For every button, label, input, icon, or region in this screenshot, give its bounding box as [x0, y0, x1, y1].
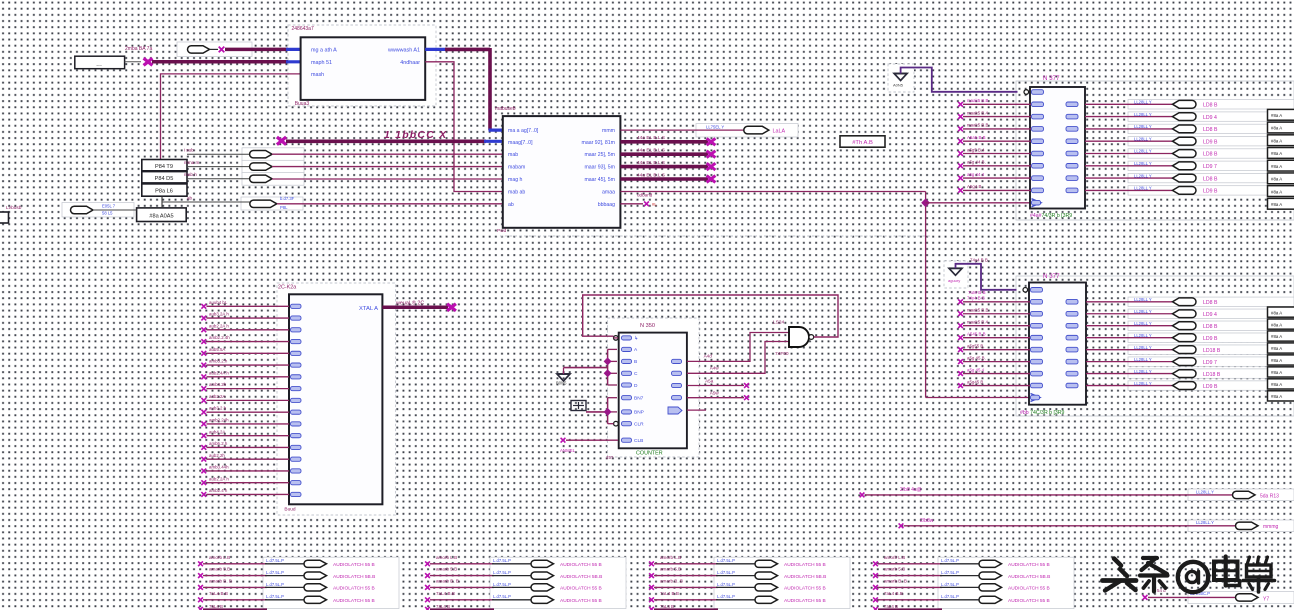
svg-text:58 L5: 58 L5: [102, 211, 113, 216]
svg-text:#Th A.B: #Th A.B: [852, 140, 873, 146]
svg-text:#8a A: #8a A: [1271, 164, 1282, 169]
svg-text:ab: ab: [187, 196, 193, 201]
svg-text:44a EL B.L S: 44a EL B.L S: [637, 172, 665, 178]
svg-text:7aL4 B.B: 7aL4 B.B: [209, 591, 228, 596]
svg-text:#8a A: #8a A: [1271, 113, 1282, 118]
svg-text:maag[7..0]: maag[7..0]: [508, 140, 533, 146]
svg-text:L.d7.5L.P: L.d7.5L.P: [717, 594, 735, 599]
svg-text:aguury: aguury: [948, 278, 960, 283]
svg-text:L.d7.5L.P: L.d7.5L.P: [717, 570, 735, 575]
svg-text:amaa: amaa: [602, 190, 615, 196]
svg-text:P84 D5: P84 D5: [155, 176, 174, 182]
svg-text:LL28LL Y: LL28LL Y: [1134, 345, 1152, 350]
svg-text:LD8 B: LD8 B: [1203, 152, 1218, 158]
svg-text:#8a A0A5: #8a A0A5: [149, 213, 173, 219]
svg-text:AUDIOLATCH 55 B: AUDIOLATCH 55 B: [333, 598, 375, 604]
svg-text:bbbaag: bbbaag: [598, 202, 615, 208]
svg-text:#L: #L: [652, 202, 657, 207]
svg-text:4ndhaar: 4ndhaar: [400, 60, 420, 66]
svg-text:maar 25], 5m: maar 25], 5m: [584, 152, 615, 158]
svg-text:AUDIOLATCH 55 B: AUDIOLATCH 55 B: [784, 598, 826, 604]
svg-text:LD9 4: LD9 4: [1203, 312, 1217, 318]
svg-text:ma a ag[7..0]: ma a ag[7..0]: [508, 128, 539, 134]
svg-text:LL28LL Y: LL28LL Y: [1134, 161, 1152, 166]
svg-text:aub2.4A h: aub2.4A h: [209, 370, 229, 375]
svg-text:L.d7.5L.P: L.d7.5L.P: [266, 594, 284, 599]
svg-text:LD8 B: LD8 B: [1203, 127, 1218, 133]
svg-text:5da R13: 5da R13: [1260, 493, 1279, 499]
svg-text:LL28LL Y: LL28LL Y: [1134, 124, 1152, 129]
svg-text:#8a A: #8a A: [1271, 370, 1282, 375]
svg-text:mabam: mabam: [508, 165, 525, 171]
svg-text:LL28LL Y: LL28LL Y: [1134, 297, 1152, 302]
svg-text:L.d7.5L.P: L.d7.5L.P: [266, 558, 284, 563]
svg-text:mmmg: mmmg: [1263, 524, 1278, 530]
svg-text:LD9 7: LD9 7: [1203, 164, 1217, 170]
svg-text:2mba BA 7a: 2mba BA 7a: [125, 46, 152, 52]
svg-text:aub3.2 h: aub3.2 h: [209, 406, 227, 411]
svg-text:LL28LL Y: LL28LL Y: [1134, 100, 1152, 105]
svg-text:LL28LL Y: LL28LL Y: [1134, 186, 1152, 191]
svg-text:a5g5 B.4: a5g5 B.4: [967, 147, 985, 152]
svg-text:mma m: mma m: [184, 160, 199, 165]
svg-text:#8a A: #8a A: [1271, 177, 1282, 182]
svg-text:amarb B. B: amarb B. B: [209, 578, 232, 583]
svg-text:amorb L.B: amorb L.B: [209, 555, 230, 560]
svg-text:#8a A: #8a A: [1271, 346, 1282, 351]
svg-text:aub2.2A h: aub2.2A h: [209, 476, 229, 481]
svg-text:Lvbusb: Lvbusb: [6, 205, 22, 211]
svg-text:LaLA: LaLA: [773, 129, 786, 135]
svg-text:maar 93], 5m: maar 93], 5m: [584, 165, 615, 171]
svg-text:74y4 B B: 74y4 B B: [967, 296, 985, 301]
svg-text:amb3.2.h: amb3.2.h: [209, 359, 228, 364]
svg-text:BNP: BNP: [634, 410, 644, 416]
svg-text:AUDIOLATCH 55 B: AUDIOLATCH 55 B: [560, 598, 602, 604]
svg-text:amarb 5.B: amarb 5.B: [436, 567, 457, 572]
svg-text:7aL4 B.B: 7aL4 B.B: [884, 591, 903, 596]
svg-text:mag h: mag h: [508, 177, 523, 183]
svg-text:amb4.2h: amb4.2h: [209, 382, 227, 387]
svg-text:L.d7.5L.P: L.d7.5L.P: [717, 558, 735, 563]
svg-text:CLR: CLR: [634, 422, 644, 428]
svg-text:A4d: A4d: [704, 354, 713, 359]
svg-text:AUDIOLATCH 5B.B: AUDIOLATCH 5B.B: [333, 574, 375, 580]
svg-text:AUDIOLATCH 55 B: AUDIOLATCH 55 B: [333, 562, 375, 568]
svg-text:LD8 B: LD8 B: [1203, 176, 1218, 182]
svg-text:weuaL® 2C: weuaL® 2C: [395, 300, 424, 307]
svg-text:AUDIOLATCH 55 B: AUDIOLATCH 55 B: [1008, 562, 1050, 568]
svg-text:B: B: [634, 359, 637, 365]
svg-text:7aL4 B.B: 7aL4 B.B: [660, 591, 679, 596]
svg-text:a5g 44 4: a5g 44 4: [967, 172, 985, 177]
svg-text:amb2.24h: amb2.24h: [209, 418, 229, 423]
svg-text:amarb 5.B: amarb 5.B: [209, 567, 230, 572]
svg-text:248643a7: 248643a7: [292, 26, 314, 32]
svg-text:ANMEL: ANMEL: [560, 448, 576, 453]
svg-text:E05L 7: E05L 7: [102, 204, 116, 209]
svg-text:AUDIOLATCH 55 B: AUDIOLATCH 55 B: [333, 586, 375, 592]
svg-text:L.d7.5L.P: L.d7.5L.P: [493, 570, 511, 575]
svg-text:LL28LL Y: LL28LL Y: [1134, 381, 1152, 386]
svg-text:maar 45], 5m: maar 45], 5m: [584, 177, 615, 183]
svg-text:...: ...: [96, 61, 102, 68]
svg-text:AUDIOLATCH 5B.B: AUDIOLATCH 5B.B: [1008, 574, 1050, 580]
svg-text:a5g 45 B.: a5g 45 B.: [967, 355, 986, 360]
svg-text:#bb 74C/3R b [3R9: #bb 74C/3R b [3R9: [1020, 410, 1065, 416]
svg-text:AUDIOLATCH 55 B: AUDIOLATCH 55 B: [784, 562, 826, 568]
svg-text:amarb 5.B: amarb 5.B: [660, 567, 681, 572]
svg-text:44a EL B.L S: 44a EL B.L S: [637, 160, 665, 166]
svg-text:mab: mab: [508, 152, 518, 158]
svg-text:LL28LL Y: LL28LL Y: [1134, 309, 1152, 314]
svg-text:N 377: N 377: [1043, 75, 1060, 82]
svg-text:N 350: N 350: [640, 323, 655, 329]
svg-text:wwwwash A1: wwwwash A1: [387, 48, 420, 54]
svg-text:AUDIOLATCH 55 B: AUDIOLATCH 55 B: [560, 586, 602, 592]
svg-text:aub3.2A h: aub3.2A h: [209, 312, 229, 317]
svg-text:7aL4 B: 7aL4 B: [660, 604, 674, 609]
svg-text:amarb 5.B: amarb 5.B: [884, 567, 905, 572]
svg-text:CLB: CLB: [634, 438, 643, 444]
svg-text:LD18 B: LD18 B: [1203, 372, 1221, 378]
svg-text:L.d7.5L.P: L.d7.5L.P: [493, 582, 511, 587]
svg-text:↳: ↳: [634, 336, 638, 342]
svg-text:aub4.2A: aub4.2A: [209, 429, 225, 434]
svg-text:aub5.5A: aub5.5A: [209, 347, 225, 352]
svg-text:2C-K2a: 2C-K2a: [278, 285, 296, 291]
svg-text:amorb L.B: amorb L.B: [884, 555, 905, 560]
svg-text:#8a A: #8a A: [1271, 151, 1282, 156]
svg-text:aub2.2A h: aub2.2A h: [209, 323, 229, 328]
svg-text:L.d7.5L.P: L.d7.5L.P: [941, 558, 959, 563]
svg-text:auub4 bL: auub4 bL: [209, 300, 228, 305]
svg-text:LD9 B: LD9 B: [1203, 139, 1218, 145]
svg-text:L.d7.5L.P: L.d7.5L.P: [717, 582, 735, 587]
svg-text:LL28LL Y: LL28LL Y: [1134, 112, 1152, 117]
svg-text:AUDIOLATCH 55 B: AUDIOLATCH 55 B: [1008, 586, 1050, 592]
svg-text:COUNTER: COUNTER: [636, 450, 663, 456]
svg-text:N 377: N 377: [1043, 273, 1060, 280]
svg-text:maar 92], 81m: maar 92], 81m: [582, 140, 615, 146]
svg-text:L.d7.5L.P: L.d7.5L.P: [266, 582, 284, 587]
svg-text:L.d7.5L.P: L.d7.5L.P: [941, 582, 959, 587]
svg-text:AUDIOLATCH 55 B: AUDIOLATCH 55 B: [784, 586, 826, 592]
svg-text:#4a#74/3R b [3R9: #4a#74/3R b [3R9: [1030, 213, 1072, 219]
svg-text:#8a A: #8a A: [1271, 334, 1282, 339]
svg-text:mmm: mmm: [602, 128, 615, 134]
svg-text:L.d7.5L.P: L.d7.5L.P: [266, 570, 284, 575]
svg-text:XTAL A: XTAL A: [359, 306, 378, 312]
svg-text:LD8 B: LD8 B: [1203, 324, 1218, 330]
svg-text:7uM B B: 7uM B B: [968, 290, 986, 295]
svg-text:mabuseb: mabuseb: [495, 106, 516, 112]
svg-text:L.d7.5L.P: L.d7.5L.P: [493, 558, 511, 563]
svg-text:LD9 4: LD9 4: [1203, 115, 1217, 121]
svg-text:i sub: i sub: [184, 148, 194, 153]
svg-text:7aL4 B: 7aL4 B: [209, 604, 223, 609]
svg-text:maph 51: maph 51: [311, 60, 332, 66]
svg-text:LD9 B: LD9 B: [1203, 384, 1218, 390]
svg-text:#8a A: #8a A: [1271, 189, 1282, 194]
svg-text:ab: ab: [508, 202, 514, 208]
svg-text:amarb B. B: amarb B. B: [436, 578, 459, 583]
svg-text:7aL4 B: 7aL4 B: [436, 604, 450, 609]
svg-text:amorb L.B: amorb L.B: [436, 555, 457, 560]
svg-text:#8a A: #8a A: [1271, 310, 1282, 315]
svg-text:maak5 B.B: maak5 B.B: [967, 98, 989, 103]
svg-text:mash: mash: [311, 72, 324, 78]
svg-text:AUDIOLATCH 5B.B: AUDIOLATCH 5B.B: [784, 574, 826, 580]
svg-text:7aL4 B.B: 7aL4 B.B: [436, 591, 455, 596]
svg-text:2/b8 4u@: 2/b8 4u@: [900, 487, 922, 493]
svg-text:a5g55 B.: a5g55 B.: [967, 343, 985, 348]
svg-text:44a EL B.L S: 44a EL B.L S: [637, 135, 665, 141]
svg-text:mab h: mab h: [184, 172, 197, 177]
svg-text:B0N5: B0N5: [556, 381, 567, 386]
svg-text:#8a A: #8a A: [1271, 322, 1282, 327]
svg-text:a5g 44 B.: a5g 44 B.: [967, 160, 986, 165]
svg-text:maak5 B.B: maak5 B.B: [967, 308, 989, 313]
svg-text:LD8 B: LD8 B: [1203, 103, 1218, 109]
svg-text:LL75EL Y: LL75EL Y: [706, 124, 724, 129]
svg-text:a4b2.2A: a4b2.2A: [209, 394, 225, 399]
svg-text:D: D: [634, 383, 638, 389]
svg-text:LL28LL Y: LL28LL Y: [1134, 149, 1152, 154]
svg-text:44a EL B.L S: 44a EL B.L S: [637, 148, 665, 154]
svg-text:L.d7.5L.P: L.d7.5L.P: [941, 570, 959, 575]
svg-text:#8a A: #8a A: [1271, 126, 1282, 131]
svg-text:LL28LL Y: LL28LL Y: [1134, 369, 1152, 374]
svg-text:25?: 25?: [606, 455, 614, 460]
svg-text:AUDIOLATCH 55 B: AUDIOLATCH 55 B: [1008, 598, 1050, 604]
svg-text:L.d7.5L.P: L.d7.5L.P: [941, 594, 959, 599]
svg-text:LS24: LS24: [773, 320, 785, 326]
svg-text:amb2.4 h: amb2.4 h: [209, 488, 228, 493]
svg-text:Y7: Y7: [1263, 596, 1269, 602]
svg-text:LL28LL.Y: LL28LL.Y: [1196, 489, 1214, 494]
svg-text:#8a A: #8a A: [1271, 358, 1282, 363]
svg-text:74F00: 74F00: [775, 351, 789, 357]
svg-text:A545 B.B: A545 B.B: [967, 331, 986, 336]
svg-text:amarb B. B: amarb B. B: [660, 578, 683, 583]
svg-text:LL28LL.Y: LL28LL.Y: [1196, 520, 1214, 525]
svg-text:7aL4 B: 7aL4 B: [884, 604, 898, 609]
svg-text:P8L: P8L: [280, 205, 288, 210]
svg-text:udband: udband: [637, 193, 653, 198]
svg-text:A5w: A5w: [710, 390, 720, 395]
svg-text:P8a L6: P8a L6: [155, 189, 173, 195]
svg-text:mg a ath A: mg a ath A: [311, 48, 337, 54]
svg-text:A5a5 B.B: A5a5 B.B: [967, 135, 986, 140]
svg-text:Pwd: Pwd: [497, 228, 507, 234]
svg-text:amb3.44h: amb3.44h: [209, 465, 229, 470]
svg-text:AUDIOLATCH 5B.B: AUDIOLATCH 5B.B: [560, 574, 602, 580]
svg-text:#8a A: #8a A: [1271, 202, 1282, 207]
svg-text:maak5 B.4: maak5 B.4: [967, 110, 989, 115]
svg-text:L.d7.5L.P: L.d7.5L.P: [493, 594, 511, 599]
svg-text:C: C: [634, 371, 638, 377]
svg-text:LL28LL Y: LL28LL Y: [1134, 321, 1152, 326]
svg-text:2/b8w: 2/b8w: [920, 518, 934, 524]
svg-text:BN7: BN7: [634, 396, 644, 402]
svg-text:a5g 45 4: a5g 45 4: [967, 367, 985, 372]
svg-text:#8a A: #8a A: [1271, 138, 1282, 143]
svg-text:AUDIOLATCH 55 B: AUDIOLATCH 55 B: [560, 562, 602, 568]
svg-text:P84 T9: P84 T9: [155, 164, 173, 170]
svg-text:amb2.2.4h: amb2.2.4h: [209, 335, 230, 340]
svg-text:1 1bbCC X: 1 1bbCC X: [384, 129, 447, 141]
svg-text:maak5 B.4: maak5 B.4: [967, 320, 989, 325]
svg-text:Buud: Buud: [284, 507, 296, 513]
svg-text:A0N5: A0N5: [893, 83, 904, 88]
svg-text:A5g4 B: A5g4 B: [967, 184, 981, 189]
svg-text:74y4 B B: 74y4 B B: [970, 258, 988, 263]
svg-text:#8a A: #8a A: [1271, 394, 1282, 399]
svg-text:a5g45 B: a5g45 B: [967, 379, 983, 384]
svg-text:amarb B. B: amarb B. B: [884, 578, 907, 583]
svg-text:A5a: A5a: [705, 378, 714, 383]
svg-text:LD9 B: LD9 B: [1203, 336, 1218, 342]
svg-text:amorb L.B: amorb L.B: [660, 555, 681, 560]
svg-text:LL28LL Y: LL28LL Y: [1134, 173, 1152, 178]
svg-text:LD9 B: LD9 B: [1203, 189, 1218, 195]
svg-text:LD18 B: LD18 B: [1203, 348, 1221, 354]
svg-text:LL28LL Y: LL28LL Y: [1134, 136, 1152, 141]
svg-text:mab ab: mab ab: [508, 190, 525, 196]
svg-text:LL28LL Y: LL28LL Y: [1134, 357, 1152, 362]
svg-text:LD8 B: LD8 B: [1203, 300, 1218, 306]
svg-text:LL28LL Y: LL28LL Y: [1134, 333, 1152, 338]
svg-text:#8a A: #8a A: [1271, 382, 1282, 387]
svg-text:LD9 7: LD9 7: [1203, 360, 1217, 366]
svg-text:maak5 B.B: maak5 B.B: [967, 123, 989, 128]
svg-text:aub2.2h: aub2.2h: [209, 453, 225, 458]
svg-text:A4w: A4w: [710, 365, 720, 370]
svg-text:Buua3: Buua3: [295, 101, 310, 107]
svg-text:b.d7.3F: b.d7.3F: [280, 196, 295, 201]
svg-text:amb5.2.h: amb5.2.h: [209, 441, 228, 446]
